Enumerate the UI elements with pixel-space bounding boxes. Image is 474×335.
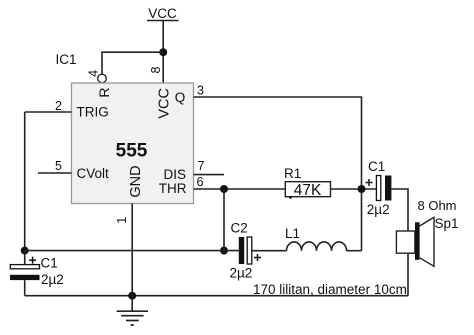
node C2 junction [220,247,228,255]
resistor R1 [285,182,330,199]
svg-text:THR: THR [159,181,187,196]
svg-text:C2: C2 [231,221,248,236]
node R1 pin mark [289,196,292,199]
junction VCC node [159,48,167,56]
node output junction [358,185,366,193]
wire pin 1 GND [131,204,133,296]
svg-text:R: R [96,87,112,97]
svg-text:2: 2 [55,99,62,113]
svg-text:TRIG: TRIG [77,105,109,120]
svg-text:C1: C1 [41,256,58,271]
svg-text:2µ2: 2µ2 [230,265,253,280]
node THR junction [220,185,228,193]
svg-text:Sp1: Sp1 [435,216,459,231]
capacitor C1 (coupling, top right) [366,176,392,201]
wire speaker to bottom rail [407,253,409,296]
wire pin 7 DIS stub [194,174,225,176]
bottom rail wire [25,295,408,297]
wire R1 to output node [331,188,377,190]
svg-text:2µ2: 2µ2 [41,272,64,287]
speaker Sp1 [396,217,434,266]
wire pin 3 Q output [194,97,362,251]
svg-text:170 lilitan, diameter 10cm: 170 lilitan, diameter 10cm [253,282,407,297]
svg-text:CVolt: CVolt [77,166,110,181]
wire L1 to output vertical [347,250,362,252]
svg-text:5: 5 [55,159,62,173]
wire pin 6 THR [194,188,286,190]
wire left junction to C2 [25,250,239,252]
svg-text:VCC: VCC [157,88,173,119]
capacitor C2 [239,237,261,264]
svg-text:GND: GND [128,165,144,197]
svg-text:L1: L1 [285,226,300,241]
svg-text:4: 4 [87,70,101,77]
wire pin 2 down left side [24,112,26,251]
op IC U1 555 body [72,83,194,204]
svg-text:VCC: VCC [148,6,177,21]
svg-text:8 Ohm: 8 Ohm [418,198,457,213]
svg-text:R1: R1 [284,166,301,181]
capacitor C1 (bottom left) [10,257,40,280]
svg-text:2µ2: 2µ2 [367,202,390,217]
wire C1 bottom to rail [24,280,26,296]
wire VCC node to pin 4 [102,52,163,74]
svg-text:1: 1 [115,217,129,224]
wire pin 5 stub [38,172,72,174]
svg-text:8: 8 [149,66,163,73]
svg-text:3: 3 [197,83,204,97]
svg-text:555: 555 [116,141,148,162]
ground [117,296,148,325]
svg-text:47K: 47K [294,182,322,199]
svg-text:Q: Q [175,90,186,105]
wire C2 to L1 [252,250,287,252]
inductor L1 [287,242,347,251]
svg-text:6: 6 [197,175,204,189]
node left C1 junction [21,247,29,255]
svg-text:C1: C1 [368,159,385,174]
node ground junction [128,292,136,300]
wire VCC to pin 8 [162,21,164,84]
wire C1 to speaker [391,189,408,231]
svg-text:7: 7 [198,159,205,173]
VCC power symbol [147,6,179,21]
svg-text:IC1: IC1 [56,52,77,67]
wire C1 top connection [24,251,26,265]
wire THR junction down [223,189,225,251]
wire pin 2 TRIG [25,111,72,113]
pin 4 inversion bubble [98,74,107,83]
